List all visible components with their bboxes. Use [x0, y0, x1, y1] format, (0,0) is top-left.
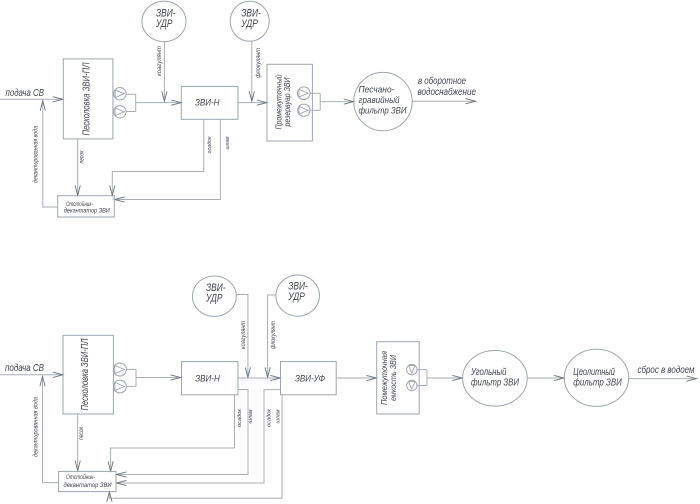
svg-text:шлам: шлам: [248, 409, 254, 423]
svg-text:осадок: осадок: [207, 136, 213, 153]
svg-text:Песколовка ЗВИ-ПЛ: Песколовка ЗВИ-ПЛ: [82, 62, 93, 135]
svg-text:Отстойник-: Отстойник-: [66, 474, 95, 481]
svg-text:резервуар ЗВИ: резервуар ЗВИ: [283, 77, 292, 127]
svg-text:шлам: шлам: [225, 136, 231, 149]
svg-text:песок: песок: [78, 426, 85, 440]
svg-text:флокулянт: флокулянт: [255, 48, 262, 78]
svg-text:фильтр ЗВИ: фильтр ЗВИ: [359, 105, 407, 116]
svg-text:шлам: шлам: [276, 409, 282, 423]
svg-text:подача СВ: подача СВ: [5, 363, 44, 374]
svg-text:Цеолитный: Цеолитный: [573, 367, 615, 378]
svg-text:УДР: УДР: [288, 291, 306, 303]
svg-text:коагулянт: коагулянт: [240, 321, 247, 349]
svg-text:декантатор ЗВИ: декантатор ЗВИ: [64, 207, 111, 214]
svg-text:ЗВИ-Н: ЗВИ-Н: [195, 374, 220, 384]
svg-text:УДР: УДР: [155, 18, 173, 30]
svg-text:фильтр ЗВИ: фильтр ЗВИ: [471, 376, 520, 388]
svg-text:коагулянт: коагулянт: [156, 46, 163, 76]
svg-text:ЗВИ-УФ: ЗВИ-УФ: [295, 374, 325, 384]
svg-text:ЗВИ-Н: ЗВИ-Н: [195, 98, 220, 108]
svg-text:емкость ЗВИ: емкость ЗВИ: [389, 355, 398, 401]
svg-text:осадок: осадок: [237, 409, 243, 427]
svg-text:УДР: УДР: [241, 18, 259, 30]
svg-text:песок: песок: [79, 150, 86, 164]
svg-text:фильтр ЗВИ: фильтр ЗВИ: [573, 376, 622, 388]
svg-text:декантированная вода: декантированная вода: [33, 397, 40, 457]
svg-text:декантированная вода: декантированная вода: [33, 126, 40, 183]
svg-text:УДР: УДР: [205, 292, 223, 304]
svg-text:флокулянт: флокулянт: [270, 321, 277, 349]
svg-text:Угольный: Угольный: [470, 367, 507, 378]
svg-text:Песколовка ЗВИ-ПЛ: Песколовка ЗВИ-ПЛ: [80, 338, 91, 410]
svg-text:подача СВ: подача СВ: [6, 88, 45, 99]
svg-text:водоснабжение: водоснабжение: [418, 86, 477, 98]
svg-text:в оборотное: в оборотное: [418, 75, 466, 87]
svg-text:осадок: осадок: [267, 409, 273, 427]
svg-text:сброс в водоем: сброс в водоем: [638, 364, 695, 376]
svg-text:декантатор ЗВИ: декантатор ЗВИ: [64, 482, 113, 489]
